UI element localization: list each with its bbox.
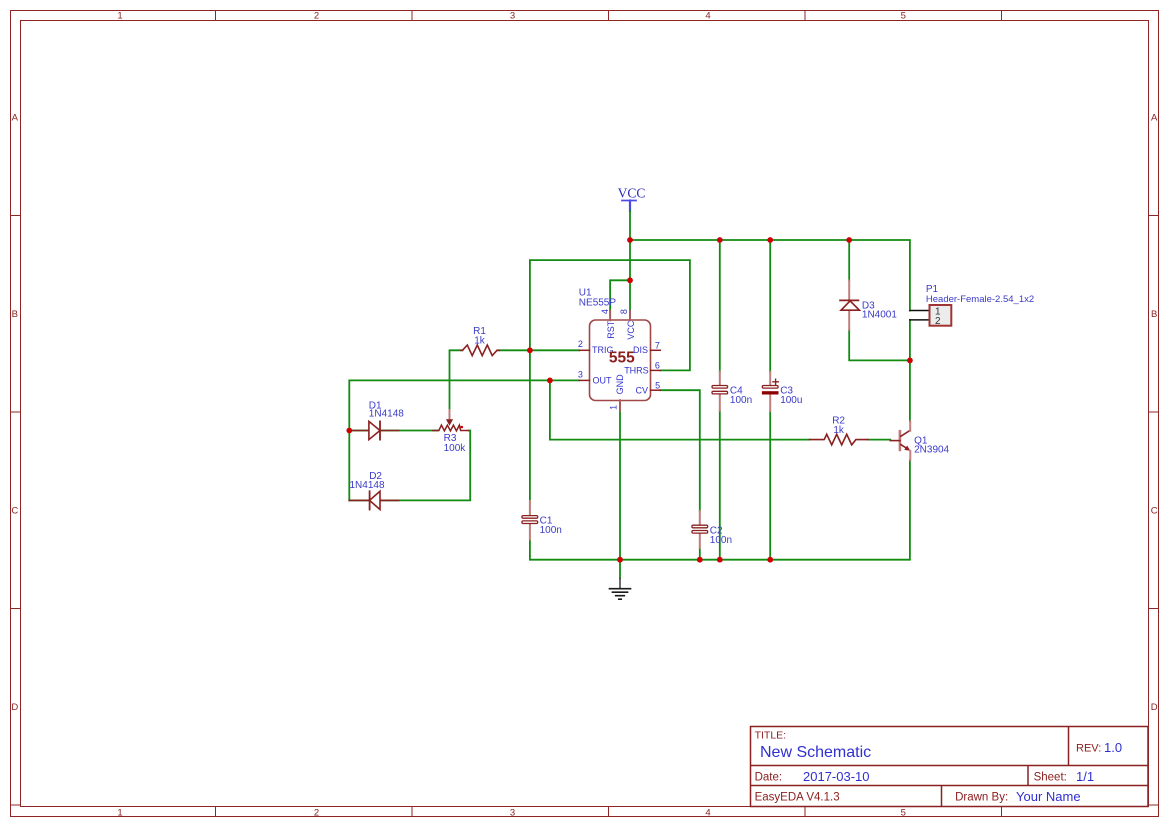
wire R3 right to D2 [349,431,470,501]
node C4 top [717,237,723,243]
svg-text:NE555P: NE555P [579,297,617,308]
wire C4 bottom [719,411,721,560]
svg-text:100u: 100u [780,395,802,406]
svg-text:RST: RST [606,320,616,339]
pin 6 stub [651,369,661,371]
svg-text:5: 5 [901,11,906,22]
svg-text:5: 5 [901,808,906,819]
svg-text:A: A [1151,113,1158,124]
svg-text:OUT: OUT [593,376,613,386]
svg-text:Header-Female-2.54_1x2: Header-Female-2.54_1x2 [926,294,1034,305]
capacitor C2 [692,511,732,548]
node C3 top [767,237,773,243]
svg-text:1k: 1k [474,336,486,347]
svg-text:3: 3 [510,11,515,22]
svg-text:1N4148: 1N4148 [369,409,404,420]
svg-text:1N4001: 1N4001 [862,309,897,320]
wire VCC to C4 [719,240,721,372]
wire R1 to TRIG [498,349,580,351]
svg-text:1.0: 1.0 [1104,740,1122,755]
node C4 bottom [717,557,723,563]
wire P1 pin2 to Q1 collector [909,320,911,421]
svg-text:D: D [1151,702,1158,713]
wire GND bottom rail [530,460,910,560]
svg-text:VCC: VCC [618,186,646,201]
svg-text:C: C [11,506,18,517]
node C3 bottom [767,557,773,563]
svg-text:D: D [11,702,18,713]
svg-text:New Schematic: New Schematic [760,744,871,761]
node D3 top [846,237,852,243]
capacitor C4 [712,372,752,411]
wire VCC to C3 [769,240,771,372]
svg-text:2017-03-10: 2017-03-10 [803,769,870,784]
wire THRS to TRIG loop [530,260,690,501]
pin 2 stub [579,349,589,351]
svg-text:5: 5 [655,381,660,391]
ground [610,579,631,600]
svg-text:1: 1 [609,405,619,410]
capacitor C1 [522,501,562,540]
svg-text:4: 4 [600,309,610,314]
node D1 anode [346,428,352,434]
svg-text:1/1: 1/1 [1076,769,1094,784]
svg-text:Your Name: Your Name [1016,789,1081,804]
svg-text:GND: GND [615,374,625,395]
net flag VCC [618,186,646,212]
node OUT [547,378,553,384]
svg-text:555: 555 [609,350,635,367]
diode D2 [349,471,398,510]
wire R1 left to R3 wiper [450,350,463,410]
pin 4 stub [609,311,611,320]
svg-text:2: 2 [578,339,583,349]
node collector [907,358,913,364]
svg-text:2N3904: 2N3904 [914,444,949,455]
diode D1 [349,401,404,440]
svg-text:8: 8 [619,309,629,314]
svg-text:3: 3 [510,808,515,819]
wire VCC top rail [630,240,910,311]
svg-text:TITLE:: TITLE: [755,730,787,742]
diode D3 [840,281,897,330]
svg-text:C: C [1151,506,1158,517]
wire CV to C2 [660,390,700,511]
pin 1 stub [619,400,621,410]
wire OUT to D1/D2 [349,380,579,500]
wire VCC to D3 [848,240,850,281]
svg-text:A: A [12,113,19,124]
wire C3 bottom [769,411,771,560]
svg-text:REV:: REV: [1076,743,1101,755]
wire D3 bottom to collector node [849,330,910,361]
svg-text:EasyEDA V4.1.3: EasyEDA V4.1.3 [755,792,840,804]
svg-text:1N4148: 1N4148 [350,480,385,491]
svg-text:1: 1 [117,808,122,819]
node VCC-rail [627,237,633,243]
node TRIG [527,347,533,353]
wire 555 GND pin down [619,411,621,560]
resistor R1 [461,326,500,355]
svg-text:1k: 1k [833,425,845,436]
svg-text:7: 7 [655,340,660,350]
wire D1 row [349,430,438,432]
svg-text:B: B [12,309,18,320]
wire C2 bottom [699,548,701,560]
svg-text:2: 2 [935,316,941,327]
svg-text:THRS: THRS [624,366,649,376]
resistor R2 [810,416,869,445]
svg-text:Sheet:: Sheet: [1034,772,1067,784]
svg-text:3: 3 [578,370,583,380]
wire pin4 to VCC [610,280,630,311]
pin 7 stub [651,349,661,351]
op-amp U1 555 timer [578,288,660,411]
pin 5 stub [651,389,661,391]
svg-text:B: B [1151,309,1157,320]
potentiometer R3 [433,410,469,454]
capacitor C3 (polarized) [762,372,803,411]
svg-text:1: 1 [117,11,122,22]
svg-text:6: 6 [655,361,660,371]
wire R2 to Q1 base [868,439,890,441]
pin 8 stub [629,311,631,320]
svg-text:VCC: VCC [626,320,636,340]
node pin4/pin8 [627,277,633,283]
svg-text:100n: 100n [710,535,732,546]
svg-text:2: 2 [314,808,319,819]
wire VCC vertical to pin 8 [629,211,631,311]
svg-text:Drawn By:: Drawn By: [955,792,1008,804]
transistor Q1 [890,421,949,460]
wire OUT to R2 [550,380,810,439]
title block [751,727,1149,807]
connector P1 [910,284,1034,327]
junction dots [346,237,912,562]
svg-text:Date:: Date: [755,772,783,784]
svg-text:4: 4 [705,808,710,819]
wire ground stub [619,560,621,579]
svg-text:4: 4 [705,11,710,22]
node GND symbol [617,557,623,563]
svg-text:100n: 100n [540,525,562,536]
node C2 bottom [697,557,703,563]
svg-text:100k: 100k [444,443,467,454]
svg-text:100n: 100n [730,395,752,406]
svg-text:2: 2 [314,11,319,22]
svg-text:CV: CV [635,386,648,396]
pin 3 stub [579,379,589,381]
svg-text:DIS: DIS [633,345,648,355]
